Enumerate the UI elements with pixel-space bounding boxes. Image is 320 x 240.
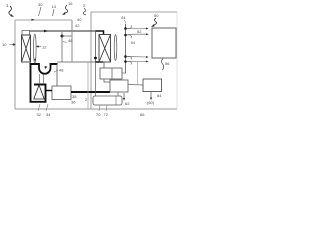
flow arrow on enclosure top — [32, 19, 35, 21]
leaders 70 72 — [99, 105, 107, 111]
svg-text:62: 62 — [125, 101, 130, 106]
svg-text:14: 14 — [52, 4, 57, 9]
left enclosure (outdoor unit) — [15, 20, 72, 109]
wire x95 down — [95, 31, 97, 62]
baseline — [15, 108, 177, 110]
flow arrow on pipe — [44, 30, 48, 33]
signal line column — [125, 24, 127, 73]
wire x62 down — [61, 32, 63, 62]
svg-text:16: 16 — [68, 1, 73, 6]
rounded box F — [93, 96, 122, 105]
bold discharge line — [71, 91, 110, 93]
valve box D — [100, 68, 122, 79]
wire x72 — [71, 20, 73, 62]
fan F1 — [34, 34, 37, 63]
controller box 50 — [152, 28, 176, 58]
U trap — [39, 63, 51, 74]
flow wedge in U trap — [45, 66, 48, 69]
bold inlet to HX2 — [96, 31, 104, 35]
box C — [110, 80, 128, 92]
wire drop from sensor wire — [137, 62, 139, 85]
wire y62 — [57, 61, 99, 63]
wire HX1 to bar — [30, 62, 35, 64]
labels 32 34 under compressor — [38, 104, 48, 111]
bold bar B — [51, 63, 58, 65]
node dot B — [94, 57, 97, 60]
svg-text:38: 38 — [72, 94, 77, 99]
wire D to C — [104, 79, 110, 82]
wires below box C — [117, 92, 119, 96]
bold suction pipe bar A — [30, 63, 40, 65]
wire U to compressor — [40, 74, 44, 84]
svg-text:10: 10 — [2, 42, 7, 47]
accumulator box B1 — [52, 86, 71, 100]
wire D to column — [122, 72, 126, 74]
svg-text:42: 42 — [75, 23, 80, 28]
arrow wire 62 — [123, 93, 125, 98]
valve box on HX1 top — [22, 31, 30, 36]
svg-text:46: 46 — [68, 38, 73, 43]
wire below box E — [150, 92, 152, 98]
right enclosure — [91, 12, 177, 109]
svg-text:30: 30 — [38, 2, 43, 7]
heat exchanger HX1 — [22, 35, 31, 62]
wire sensor to controller 1 — [126, 28, 147, 30]
wire to box E — [126, 61, 147, 63]
wire dot to x72 — [62, 35, 72, 37]
svg-text:54: 54 — [131, 41, 135, 45]
sensor dots — [124, 27, 127, 30]
svg-text:52: 52 — [137, 29, 142, 34]
svg-text:36: 36 — [71, 100, 76, 105]
wire C to E — [128, 84, 143, 87]
bold stub compressor to B1 — [46, 90, 52, 92]
label 1 leader arrow — [9, 6, 12, 16]
svg-text:44: 44 — [121, 15, 126, 20]
box D divider — [111, 68, 113, 79]
svg-text:48: 48 — [59, 68, 64, 73]
svg-text:72: 72 — [104, 112, 109, 117]
wire sensor to controller 2 — [126, 33, 147, 36]
wire x88 down — [87, 62, 89, 109]
svg-text:12: 12 — [42, 45, 47, 50]
wire x57 down — [56, 64, 58, 86]
svg-text:56: 56 — [165, 61, 170, 66]
wire x95 lower — [95, 62, 97, 96]
box F divider — [115, 96, 117, 105]
box E — [143, 79, 162, 92]
svg-text:70: 70 — [96, 112, 101, 117]
pipe y31 — [30, 30, 96, 32]
svg-text:64: 64 — [157, 93, 162, 98]
sensor squiggles — [128, 26, 132, 65]
svg-text:(60): (60) — [147, 100, 155, 105]
wire HX2 bottom — [103, 62, 105, 68]
compressor housing bold — [31, 64, 46, 102]
compressor triangle — [34, 85, 44, 99]
svg-text:66: 66 — [140, 112, 145, 117]
flow arrows HX1 outlet stubs — [29, 59, 36, 62]
fan F2 — [114, 35, 117, 61]
svg-text:32: 32 — [37, 112, 42, 117]
node dot A — [61, 35, 64, 38]
heat exchanger HX2 — [99, 35, 111, 63]
bold HX2 outlet — [96, 61, 104, 63]
svg-text:40: 40 — [77, 17, 82, 22]
wire sensor to controller 3 — [126, 56, 147, 59]
svg-text:50: 50 — [154, 13, 159, 18]
svg-text:34: 34 — [46, 112, 51, 117]
